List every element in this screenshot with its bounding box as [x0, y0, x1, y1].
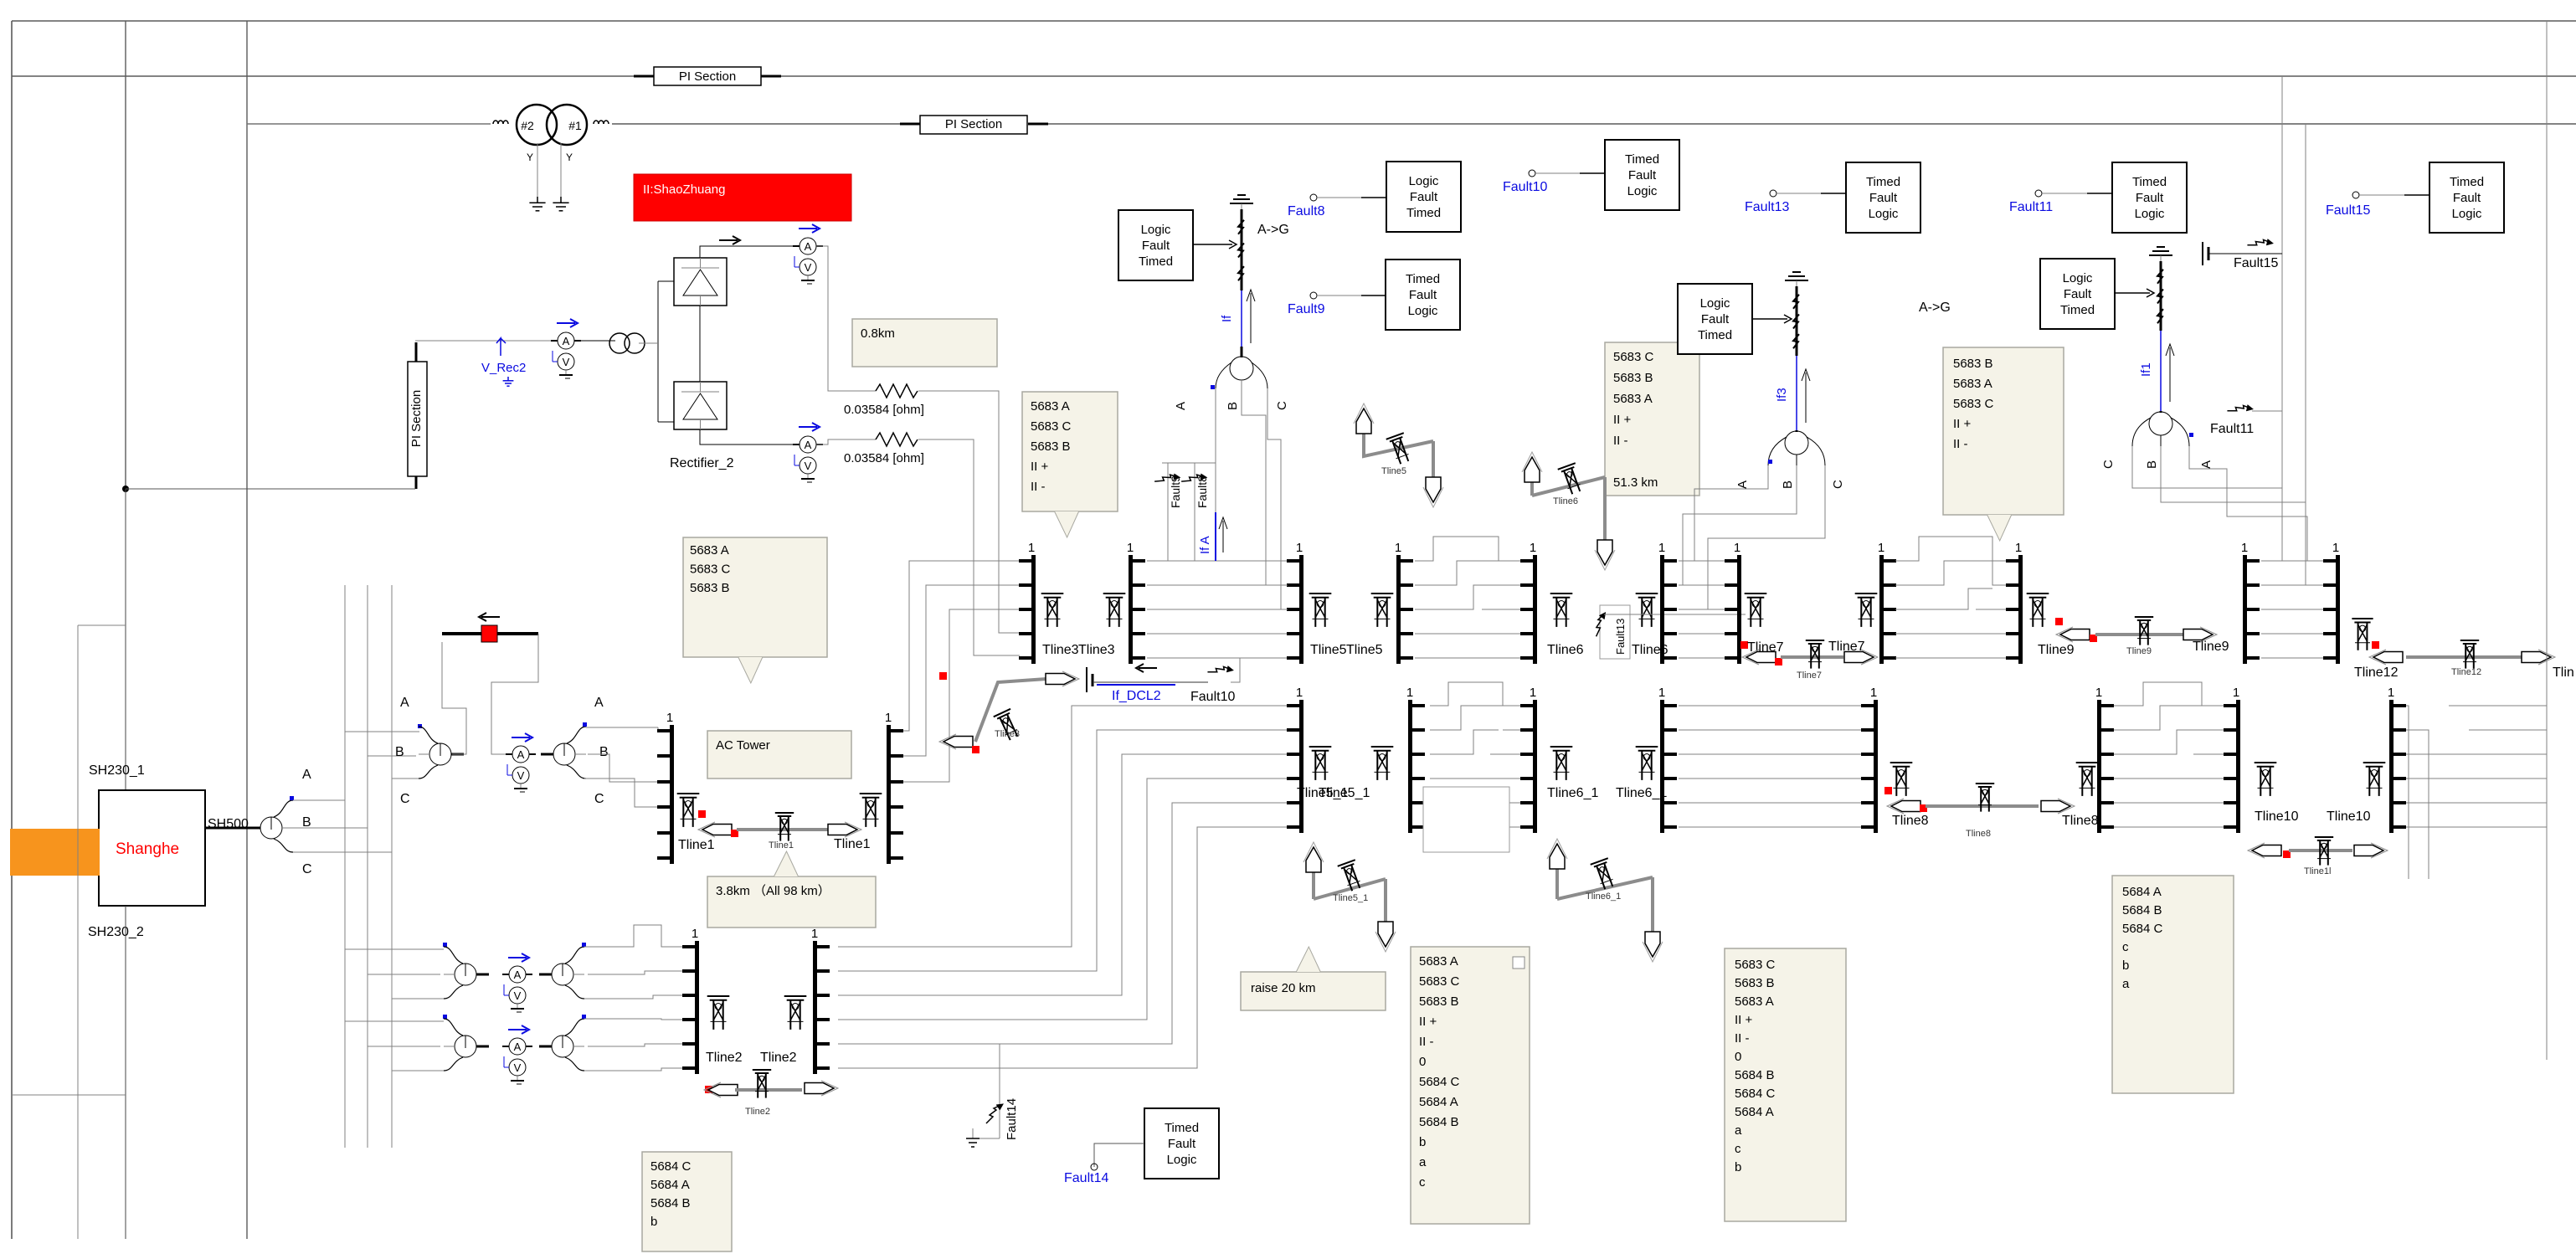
label If1 A rot	[2199, 460, 2214, 469]
wire span Tline7-9 w1	[1895, 537, 2007, 585]
Tline interface Tline8 left	[1861, 686, 1878, 833]
label A-G If3	[1919, 301, 1951, 315]
wire Tline9 run	[2095, 633, 2183, 636]
wire long span lower 4	[1679, 778, 1862, 779]
Tline interface Tline7 right	[1878, 541, 1896, 664]
wire Tline2 riser 5	[838, 803, 1288, 1044]
wire phase bus x468	[391, 585, 393, 1148]
tower Tline1 mid	[775, 813, 794, 841]
label II:ShaoZhuang	[634, 174, 851, 221]
arrow If up	[1247, 290, 1255, 343]
wire SH500 stub	[205, 827, 260, 830]
wire span 8-10 w4	[2114, 778, 2224, 779]
PI Section block 2	[900, 116, 1048, 134]
wire bus to breakout2 A	[345, 731, 419, 732]
arrow Tline8 send	[2041, 799, 2075, 814]
svg-text:II -: II -	[1735, 1031, 1750, 1046]
svg-text:Logic: Logic	[2135, 207, 2165, 221]
blue node If1	[2189, 433, 2193, 437]
tower Tline6_1 b	[1636, 747, 1658, 780]
svg-text:5683 B: 5683 B	[690, 581, 730, 595]
svg-text:1: 1	[2233, 686, 2239, 700]
label Tline11 small	[2304, 866, 2331, 876]
svg-text:b: b	[650, 1215, 657, 1229]
red node Tline3dc	[972, 746, 979, 753]
svg-text:1: 1	[811, 927, 818, 941]
svg-text:Timed: Timed	[1406, 272, 1440, 286]
breakout mid left	[419, 727, 464, 779]
tower Tline5_1 a	[1309, 747, 1332, 780]
svg-text:C: C	[2101, 460, 2116, 469]
svg-text:Tline5: Tline5	[1346, 643, 1383, 657]
blue node row2 left	[443, 1015, 447, 1019]
wire span lower w2	[1430, 706, 1521, 730]
wire vertical bus x14	[11, 21, 13, 1239]
wire span Tline9-12 w1	[2261, 488, 2324, 561]
svg-text:0: 0	[1419, 1055, 1426, 1069]
fault Fault15 line symbol	[2203, 242, 2282, 265]
wire T1 ground leads	[537, 143, 561, 197]
svg-text:5683 A: 5683 A	[1419, 954, 1458, 969]
svg-text:5683 A: 5683 A	[1953, 377, 1992, 391]
note tall 1	[1411, 947, 1530, 1224]
wire span Tline5-6 w2	[1415, 561, 1521, 585]
svg-text:Tline5_1: Tline5_1	[1319, 786, 1370, 800]
transformer T1 windings	[493, 121, 609, 124]
blue node If A	[1211, 385, 1215, 389]
svg-text:Logic: Logic	[1627, 184, 1658, 198]
wire span Tline5-6 w3	[1415, 585, 1521, 609]
blue arrow row1	[508, 953, 529, 962]
fault Fault10 zig	[1207, 658, 1232, 683]
blue node dot SH500 A	[290, 796, 294, 800]
label Tline8 left	[1892, 814, 1929, 828]
svg-text:Tline1: Tline1	[678, 838, 715, 852]
arrow Tline1 send	[828, 822, 861, 837]
wire T2 to rectifier	[639, 342, 658, 344]
label Fault10 line	[1190, 690, 1235, 704]
Tline interface Tline2 left	[682, 927, 699, 1074]
tower Tline8 b	[2076, 763, 2099, 796]
svg-text:II -: II -	[1953, 437, 1968, 451]
svg-text:c: c	[1735, 1142, 1741, 1156]
wire SH500 A to bus	[293, 799, 345, 801]
fault box Timed Fault Logic F9	[1386, 260, 1460, 330]
wire row1 C to Tline2	[584, 995, 683, 999]
wire span Tline6-7 2	[1679, 584, 1725, 586]
svg-text:Tline1l: Tline1l	[2304, 866, 2331, 876]
wire vertical x2726 from bus	[2281, 76, 2283, 488]
wire long span lower 5	[1679, 802, 1862, 804]
svg-text:A: A	[594, 696, 604, 710]
svg-text:5684 A: 5684 A	[1735, 1105, 1774, 1119]
wire span Tline6-7 3	[1679, 609, 1725, 610]
label Tline9 left lbl	[2038, 643, 2075, 657]
arrow Tline2 receive	[704, 1082, 738, 1097]
label phase A SH500	[302, 768, 311, 782]
svg-text:0.8km: 0.8km	[861, 326, 895, 341]
svg-text:Tline9: Tline9	[2193, 640, 2229, 654]
svg-text:Logic: Logic	[1409, 174, 1439, 188]
red node Tline1	[698, 810, 706, 818]
svg-text:Rectifier_2: Rectifier_2	[670, 456, 734, 470]
fault Fault13 marker	[1590, 605, 1746, 659]
red node Tline12	[2372, 641, 2379, 649]
arrow Tline11 receive	[2248, 843, 2281, 858]
wire rectifier bottom out	[700, 429, 800, 445]
wire row1 B tap	[368, 974, 440, 975]
svg-text:5683 C: 5683 C	[1735, 958, 1776, 972]
tower Tline7 b	[1855, 594, 1878, 627]
svg-text:Timed: Timed	[1139, 254, 1173, 269]
svg-text:Logic: Logic	[1141, 223, 1171, 237]
svg-text:Tline10: Tline10	[2255, 809, 2299, 824]
tower Tline10 a	[2255, 763, 2277, 796]
svg-text:Fault: Fault	[2453, 191, 2481, 205]
breakout If3	[1768, 431, 1825, 465]
tower Tline6_1 a	[1550, 747, 1573, 780]
label Fault11 line	[2210, 422, 2254, 436]
wire Tline10 out 5	[2406, 802, 2547, 804]
AV meter rectifier bottom	[793, 436, 823, 482]
fault box Timed Fault Logic F15	[2429, 162, 2504, 233]
wire If1 stem	[2160, 411, 2162, 413]
blue arrow meter mid	[512, 733, 532, 742]
red node Tline11	[2283, 850, 2291, 858]
note box AC Tower	[707, 731, 851, 779]
label If3 A rot	[1735, 480, 1750, 489]
svg-text:Fault9: Fault9	[1288, 302, 1325, 316]
wire bus y148 left segment	[247, 123, 491, 125]
svg-text:Logic: Logic	[2063, 271, 2093, 285]
svg-text:Tline10: Tline10	[2327, 809, 2371, 824]
wire span Tline9-12 w4	[2261, 633, 2324, 635]
wire span Tline7-9 w2	[1895, 561, 2007, 585]
wire If_DCL2 line	[1093, 682, 1208, 685]
svg-text:A->G: A->G	[1919, 301, 1951, 315]
wire R1 to Tline3 pin4	[918, 391, 1020, 633]
note raise20	[1241, 947, 1386, 1010]
tower Tline9 mid	[2135, 617, 2153, 645]
svg-text:V: V	[517, 769, 525, 782]
svg-text:Fault11: Fault11	[2009, 200, 2053, 214]
wire long span lower 6	[1679, 826, 1862, 828]
label Tline3dc small	[995, 729, 1020, 739]
node Fault8	[1288, 194, 1325, 218]
fault box Logic Fault Timed If	[1118, 210, 1193, 280]
Tline interface Tline6_1 left	[1520, 686, 1537, 833]
svg-text:A: A	[514, 1041, 522, 1053]
svg-text:Tline2: Tline2	[706, 1051, 743, 1065]
motif Tline6 updown	[1522, 452, 1615, 570]
tower Tline7 a	[1745, 594, 1767, 627]
wire vertical bus x150 upper	[125, 21, 126, 489]
wire meter to T2	[574, 340, 615, 342]
svg-text:1: 1	[1296, 541, 1303, 555]
svg-text:Fault: Fault	[1869, 191, 1898, 205]
svg-text:V_Rec2: V_Rec2	[481, 361, 526, 375]
svg-text:II +: II +	[1735, 1013, 1753, 1027]
wire If3 phaseC	[1708, 465, 1825, 609]
wire span Tline9-12 w3	[2261, 609, 2324, 610]
label Tline9 small	[2126, 646, 2152, 656]
wire LFT3 to chain	[1751, 315, 1792, 323]
junction node at x150 y584	[122, 486, 415, 492]
svg-text:5683 C: 5683 C	[1419, 974, 1460, 989]
blue node dot breakout2	[418, 724, 422, 728]
ground T1 right	[553, 197, 568, 211]
Tline interface Tline2 right	[811, 927, 830, 1074]
Tline interface Tline1 right	[885, 711, 903, 864]
arrow Tline3dc receive	[939, 734, 973, 749]
wire bus to breakout2 C	[392, 778, 419, 779]
svg-text:Fault: Fault	[1410, 190, 1438, 204]
tower Tline8 mid	[1976, 784, 1994, 812]
fault Fault15 zig	[2247, 231, 2272, 256]
wire span Tline6-7 5	[1679, 657, 1725, 659]
svg-text:Y: Y	[566, 152, 573, 163]
Tline interface Tline6 right	[1658, 541, 1677, 664]
wire R2 to Tline3 pin5	[918, 439, 1020, 655]
transformer T1	[517, 105, 587, 145]
label If3 C rot	[1831, 480, 1845, 489]
svg-text:V: V	[563, 356, 570, 368]
wire If3 phaseB	[1683, 465, 1797, 585]
svg-text:Shanghe: Shanghe	[116, 840, 179, 858]
label Rectifier_2	[670, 456, 734, 470]
box empty	[1423, 787, 1509, 852]
label Tline5_1 pair	[1297, 786, 1370, 800]
tower Tline2 b	[784, 996, 807, 1030]
wire If_A blue seg	[1215, 463, 1216, 561]
svg-text:Fault: Fault	[1628, 168, 1657, 182]
label If1 rotated	[2139, 362, 2153, 377]
tower Tline11 mid	[2315, 837, 2333, 866]
tower Tline1 left	[677, 794, 700, 827]
wire Fault14 to box	[1094, 1143, 1144, 1167]
svg-text:A: A	[302, 768, 311, 782]
wire Tline10 out 6	[2406, 826, 2547, 828]
svg-text:Tlin: Tlin	[2553, 665, 2574, 680]
arrow Tline7 receive	[1742, 650, 1776, 665]
wire span Tline6-7 1	[1679, 560, 1725, 562]
blue node row2 right	[582, 1015, 586, 1019]
svg-text:5683 C: 5683 C	[1613, 350, 1654, 364]
svg-text:Tline5_1: Tline5_1	[1333, 893, 1368, 903]
node Fault14	[1064, 1164, 1108, 1185]
svg-text:V: V	[514, 1061, 522, 1074]
svg-text:5684 B: 5684 B	[650, 1196, 691, 1210]
AV meter row1	[502, 966, 532, 1012]
blue node dot breakout3	[583, 722, 587, 727]
wire span Tline3-Tline5 1	[1147, 560, 1288, 562]
wire breakout3 B to Tline1	[588, 754, 658, 782]
svg-text:5683 A: 5683 A	[690, 543, 729, 558]
svg-text:5684 C: 5684 C	[2122, 922, 2163, 936]
fault box Timed Fault Logic F10	[1605, 140, 1679, 210]
svg-text:1: 1	[1658, 686, 1665, 700]
label Tline12 left	[2354, 665, 2399, 680]
label If A rot	[1174, 402, 1188, 410]
label If C rot	[1275, 401, 1289, 410]
Tline interface Tline5 right	[1395, 541, 1413, 664]
Tline interface Tline6 left	[1520, 541, 1537, 664]
svg-text:Tline6: Tline6	[1553, 496, 1578, 506]
Tline interface Tline5 left	[1287, 541, 1303, 664]
label phase A r	[594, 696, 604, 710]
label If_A	[1198, 536, 1212, 554]
wire If phaseB path	[1242, 380, 1288, 585]
svg-text:Logic: Logic	[1167, 1153, 1197, 1167]
svg-text:b: b	[1735, 1160, 1741, 1174]
wire span Tline5-6 w1	[1415, 537, 1521, 561]
wire span Tline7-9 w5	[1895, 657, 2007, 659]
label If rotated	[1220, 315, 1234, 322]
svg-text:B: B	[2145, 460, 2159, 469]
svg-text:1: 1	[1127, 541, 1134, 555]
tower Tline9 a	[2027, 594, 2049, 627]
wire Tline2 run	[735, 1088, 802, 1092]
wire rectifier left leg	[658, 281, 674, 422]
svg-text:Logic: Logic	[1700, 296, 1730, 311]
svg-text:II -: II -	[1419, 1035, 1434, 1049]
svg-text:51.3 km: 51.3 km	[1613, 475, 1658, 490]
arrester If1 lightning	[2157, 261, 2163, 331]
svg-text:Fault: Fault	[1409, 288, 1437, 302]
arrow Tline3dc send	[1046, 671, 1079, 686]
fault box Timed Fault Logic Fault14	[1144, 1108, 1219, 1179]
tower Tline10 b	[2363, 763, 2386, 796]
note bottom left	[642, 1152, 732, 1251]
wire meter top to resistor	[816, 246, 876, 391]
svg-text:3.8km （All 98 km）: 3.8km （All 98 km）	[716, 884, 830, 898]
ground Fault14	[966, 1128, 1000, 1147]
motif Tline5 updown	[1354, 403, 1443, 507]
wire Fault8 to box	[1317, 197, 1386, 198]
wire Tline2 riser 3	[838, 754, 1288, 995]
wire span Tline3-Tline5 3	[1147, 609, 1288, 610]
blue arrow meter top	[799, 224, 820, 233]
svg-text:Tline12: Tline12	[2354, 665, 2399, 680]
wire Tline12 run	[2406, 655, 2522, 659]
svg-text:5683 B: 5683 B	[1953, 357, 1993, 371]
arrester If3 lightning	[1793, 286, 1799, 356]
svg-text:1: 1	[692, 927, 698, 941]
red node Tline7 line	[1775, 658, 1782, 665]
svg-text:A: A	[400, 696, 409, 710]
svg-text:0.03584 [ohm]: 0.03584 [ohm]	[844, 403, 924, 417]
svg-text:1: 1	[1406, 686, 1413, 700]
svg-text:Tline3: Tline3	[1078, 643, 1115, 657]
label Tline10 pair	[2255, 809, 2371, 824]
label Tline6_1 pair	[1547, 786, 1667, 800]
svg-text:B: B	[395, 745, 404, 759]
wire Tline7 run	[1781, 655, 1843, 659]
wire Tline1R riser2	[903, 585, 1020, 756]
svg-text:b: b	[1419, 1135, 1426, 1149]
label SH500	[208, 817, 249, 831]
svg-text:Tline8: Tline8	[1892, 814, 1929, 828]
svg-text:Logic: Logic	[2452, 207, 2482, 221]
wire Tline2 riser 6	[838, 827, 1288, 1068]
node Fault10	[1503, 170, 1547, 194]
wire SH500 B to bus	[293, 827, 368, 829]
wire span Tline5-6 w4	[1415, 633, 1521, 635]
svg-text:SH230_2: SH230_2	[88, 925, 144, 939]
svg-text:Tline3: Tline3	[1042, 643, 1079, 657]
tower Tline1 right	[860, 794, 882, 827]
Tline interface Tline6_1 right	[1658, 686, 1677, 833]
svg-text:Fault13: Fault13	[1614, 619, 1627, 655]
svg-text:II +: II +	[1031, 460, 1049, 474]
wire span Tline7-9 w3	[1895, 588, 2007, 609]
wire vertical bus x3042	[2546, 21, 2548, 1060]
wire row2 B tap	[368, 1046, 440, 1047]
resistor R1 0.03584 ohm	[876, 384, 918, 398]
svg-text:Fault15: Fault15	[2234, 256, 2278, 270]
svg-text:II +: II +	[1613, 413, 1632, 427]
Tline interface Tline9 left	[2006, 541, 2023, 664]
wire Tline1 run	[737, 828, 840, 831]
wire row1 A tap	[345, 948, 444, 950]
svg-text:SH230_1: SH230_1	[89, 763, 145, 778]
tower Tline12 a	[2352, 619, 2373, 650]
svg-text:1: 1	[2241, 541, 2248, 555]
breakout row2 right	[539, 1019, 584, 1071]
blue V_Rec2 probe	[481, 338, 526, 386]
svg-text:Tline8: Tline8	[1966, 829, 1991, 839]
wire Tline8 run	[1926, 804, 2039, 808]
rectifier diode box upper	[674, 258, 727, 306]
svg-text:1: 1	[1296, 686, 1303, 700]
wire vertical bus x295	[246, 21, 248, 1239]
wire span Tline9-12 w5	[2261, 657, 2324, 659]
svg-text:C: C	[594, 792, 604, 806]
wire Tline10 out 4	[2406, 778, 2547, 779]
svg-text:b: b	[2122, 958, 2129, 973]
note tall 2	[1725, 948, 1846, 1221]
wire span 8-10 w3	[2114, 730, 2224, 754]
arrow If_DCL2 dir	[1136, 664, 1157, 672]
svg-text:Timed: Timed	[1698, 328, 1732, 342]
svg-text:Tline6_1: Tline6_1	[1547, 786, 1598, 800]
svg-text:II +: II +	[1419, 1015, 1437, 1029]
arrow Tline1 receive	[698, 822, 732, 837]
svg-text:Timed: Timed	[1866, 175, 1900, 189]
svg-text:PI Section: PI Section	[945, 117, 1002, 131]
svg-text:5684 C: 5684 C	[650, 1159, 692, 1174]
wire Fault15 to box	[2359, 194, 2429, 196]
tower Tline3 b	[1103, 594, 1126, 627]
wire phase bus x412	[344, 585, 346, 1148]
svg-text:1: 1	[885, 711, 892, 725]
wire long span lower 1	[1679, 705, 1862, 707]
wire span Tline9-12 w2	[2261, 502, 2324, 585]
tower Tline3 a	[1041, 594, 1064, 627]
svg-text:Tline3: Tline3	[995, 729, 1020, 739]
wire If stem	[1241, 347, 1243, 357]
wire long span lower 2	[1679, 729, 1862, 731]
svg-text:Fault15: Fault15	[2326, 203, 2370, 218]
svg-text:5683 A: 5683 A	[1613, 392, 1653, 406]
wire bus y148 right segment	[1048, 123, 2576, 125]
svg-text:1: 1	[2095, 686, 2102, 700]
label Tline12 small	[2451, 667, 2481, 677]
node Fault15	[2326, 192, 2370, 218]
wire span Tline3-Tline5 2	[1147, 584, 1288, 586]
svg-text:Fault: Fault	[1168, 1137, 1196, 1151]
svg-text:A: A	[517, 748, 525, 761]
